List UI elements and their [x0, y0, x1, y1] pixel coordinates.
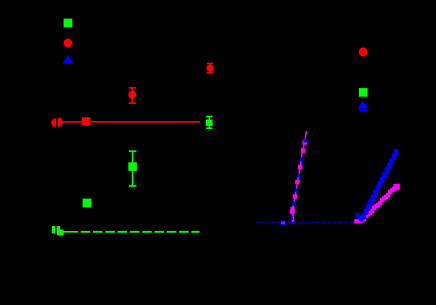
- flat dotted blue baseline (right panel): [257, 221, 358, 223]
- right legend green square marker: [359, 88, 368, 97]
- start cluster: blue square data point: [281, 221, 286, 226]
- green square data point (left panel, lower): [83, 199, 92, 208]
- right legend blue triangle marker: [358, 101, 368, 109]
- black axis stripe over red circle: [56, 116, 57, 130]
- red data point with error bar (left panel, middle): [128, 88, 136, 103]
- magenta rising curve markers (right panel): [354, 184, 400, 224]
- green square data point with error bar (left panel, middle): [128, 151, 137, 186]
- blue triangle markers on steep curve: [290, 138, 309, 220]
- magenta square markers on steep curve: [290, 140, 307, 214]
- green square data point with error bar (left panel, right edge): [206, 117, 213, 129]
- left legend red circle marker: [64, 39, 73, 48]
- left legend green square marker: [64, 19, 73, 28]
- steep curve bottom tail and dot: [292, 213, 295, 222]
- right legend blue triangle notch: [365, 104, 367, 106]
- red horizontal fit line (left panel): [53, 121, 200, 123]
- red square data point: [82, 117, 90, 125]
- steep magenta curve (right panel): [293, 131, 307, 222]
- green clipped marker cluster at axis (dashed line start): [52, 226, 55, 234]
- red clipped circle data point at axis: [51, 118, 59, 126]
- right legend blue line sample: [360, 109, 368, 111]
- right legend red circle marker: [359, 47, 368, 56]
- green dashed fit line (left panel): [63, 231, 78, 233]
- left legend blue triangle marker: [63, 55, 74, 64]
- red triangle fragment data point: [58, 117, 64, 127]
- red data point with error bar (left panel, right edge): [206, 64, 213, 73]
- start cluster: magenta square data point: [281, 222, 285, 224]
- blue circle markers on rising curve: [355, 149, 398, 222]
- blue rising curve line (right panel): [362, 149, 398, 220]
